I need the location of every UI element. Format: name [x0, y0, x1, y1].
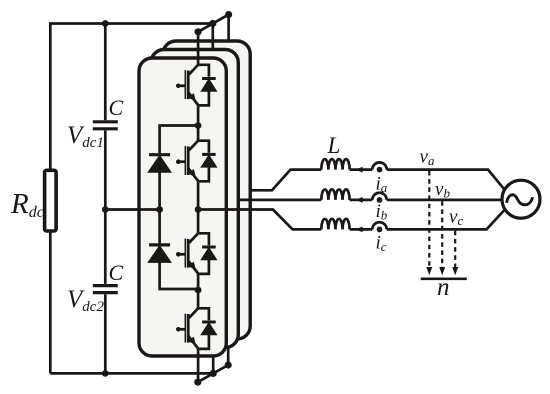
diode D5 clamp upper	[149, 155, 170, 210]
junction T1-T2 node	[195, 122, 202, 129]
junction bottom rail capacitor node	[102, 370, 109, 377]
wire phase-a leg top stub	[197, 32, 200, 65]
wire row a after inductor	[350, 168, 373, 171]
inductor L phase c row a	[321, 159, 349, 170]
wire row a to source	[387, 170, 505, 190]
current sensor dot row b	[377, 197, 383, 203]
svg-text:C: C	[109, 95, 124, 120]
voltage arrow v_a dashed	[426, 171, 432, 275]
svg-text:va: va	[420, 147, 435, 169]
current sensor arc row b	[372, 193, 386, 200]
IGBT T3	[176, 233, 198, 273]
wire T2-phase	[197, 181, 200, 233]
svg-text:Vdc1: Vdc1	[67, 122, 104, 151]
voltage arrow v_b dashed	[439, 201, 445, 275]
wire T3-T4	[197, 274, 200, 308]
wire bottom diagonal bus	[198, 365, 228, 382]
AC source sine symbol	[507, 195, 533, 205]
wire phase a line (row c from front module)	[198, 210, 321, 230]
wire stub bottom middle module	[212, 348, 215, 374]
wire phase c line (row a from back module)	[250, 170, 321, 191]
IGBT T1	[176, 65, 198, 105]
current arrow i_c	[355, 227, 363, 233]
wire row b to source	[387, 199, 502, 202]
junction top bus node b	[209, 20, 216, 27]
IGBT T2	[176, 141, 198, 181]
svg-text:Vdc2: Vdc2	[67, 286, 104, 315]
wire stub top middle module	[211, 24, 214, 50]
junction neutral capacitor node	[102, 206, 109, 213]
junction T3-T4 node	[195, 287, 202, 294]
wire top diagonal bus	[198, 15, 229, 32]
current arrow i_a	[355, 167, 363, 173]
junction top bus node c	[225, 11, 232, 18]
wire DC- bottom rail	[50, 372, 213, 375]
svg-text:n: n	[437, 274, 450, 301]
current arrow i_b	[355, 197, 363, 203]
wire DC+ top rail	[50, 24, 213, 374]
svg-text:ib: ib	[376, 201, 388, 223]
wire clamp top branch	[160, 126, 199, 154]
current sensor dot row a	[377, 167, 383, 173]
current sensor arc row a	[372, 162, 386, 169]
junction phase a output node	[195, 206, 202, 213]
junction top bus node a	[195, 28, 202, 35]
resistor Rdc body	[45, 170, 57, 231]
diode D4 antiparallel	[198, 308, 216, 349]
module box front (phase a module)	[139, 58, 226, 356]
wire row b after inductor	[350, 199, 373, 202]
wire neutral rail	[105, 208, 159, 211]
AC source U1 circle	[502, 180, 540, 218]
svg-text:vc: vc	[449, 207, 463, 229]
wire phase b line (row b from middle module)	[238, 199, 321, 202]
svg-text:C: C	[109, 260, 124, 285]
wire stub bottom back module	[227, 339, 230, 365]
diode D2 antiparallel	[198, 141, 216, 182]
diode D6 clamp lower	[149, 245, 198, 289]
node n reference bar	[421, 277, 467, 280]
junction bottom bus node c	[225, 361, 232, 368]
wire row c after inductor	[350, 228, 373, 231]
capacitor C1 plates	[93, 122, 118, 129]
junction bottom bus node a	[194, 379, 201, 386]
svg-text:ia: ia	[376, 174, 388, 196]
inductor L phase b row b	[321, 189, 349, 199]
diode D1 antiparallel	[198, 65, 216, 106]
capacitor C2 plates	[93, 286, 118, 293]
module box back (phase c module)	[163, 41, 250, 339]
wire phase-a leg bottom stub	[197, 349, 200, 382]
module box middle (phase b module)	[151, 50, 238, 348]
junction bottom bus node b	[210, 370, 217, 377]
wire T1-T2	[197, 105, 200, 140]
svg-text:ic: ic	[376, 233, 387, 255]
svg-text:vb: vb	[435, 179, 450, 201]
wire below capacitor C2	[104, 294, 107, 373]
voltage arrow v_c dashed	[452, 231, 458, 276]
wire stub top back module	[227, 15, 230, 41]
wire clamp bottom branch	[158, 210, 161, 244]
inductor L phase a row c	[321, 219, 349, 230]
svg-text:Rdc: Rdc	[10, 188, 44, 221]
diode D3 antiparallel	[198, 233, 216, 274]
junction neutral node	[156, 206, 163, 213]
junction top rail capacitor node	[102, 20, 109, 27]
wire row c to source	[387, 210, 505, 230]
wire capacitor branch vertical	[104, 24, 107, 121]
IGBT T4	[176, 308, 198, 348]
svg-text:L: L	[327, 133, 341, 158]
wire between capacitors	[104, 131, 107, 284]
current sensor arc row c	[372, 222, 386, 229]
current sensor dot row c	[377, 227, 383, 233]
